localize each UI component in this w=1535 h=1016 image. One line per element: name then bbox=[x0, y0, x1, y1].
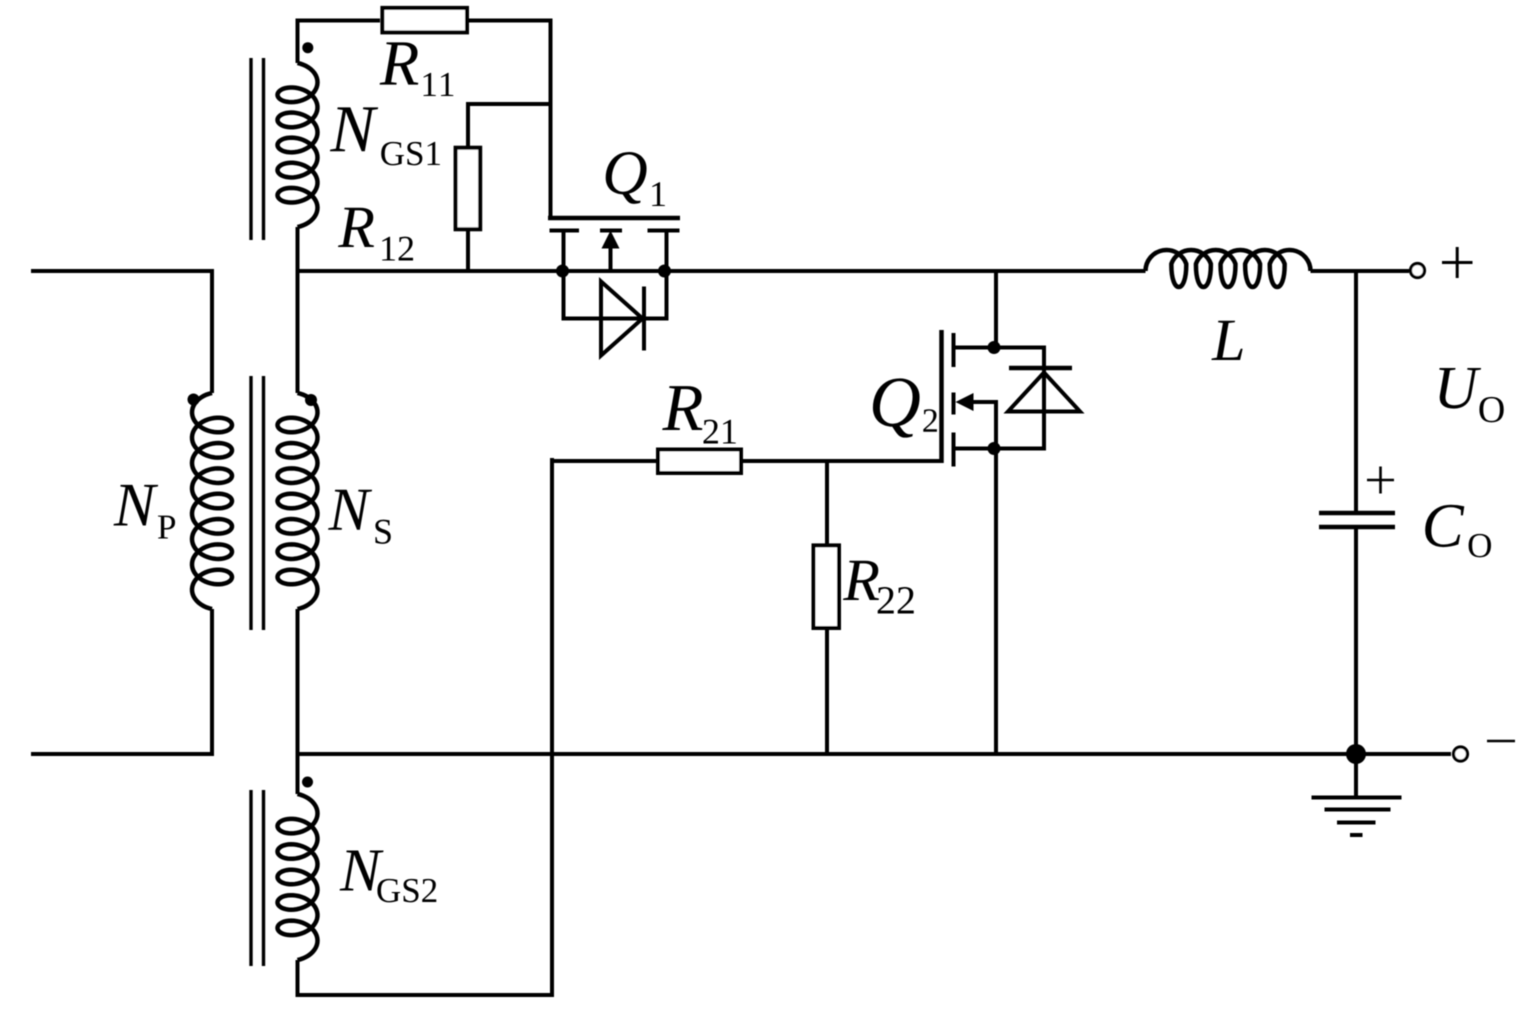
Q2 substrate arrow shaft bbox=[972, 400, 998, 404]
wire NGS2 bottom horizontal bbox=[298, 993, 555, 997]
label NGS2 bbox=[340, 851, 437, 903]
resistor R11 bbox=[382, 8, 467, 33]
winding NP bbox=[192, 393, 232, 609]
core bottom line 1 bbox=[249, 790, 252, 966]
Q2 drain lead bbox=[954, 346, 997, 350]
wire NGS2 top lead bbox=[296, 754, 300, 794]
Q2 mid vertical bbox=[994, 402, 998, 449]
Q2 substrate arrow head bbox=[956, 393, 974, 411]
resistor R22 bbox=[814, 545, 840, 628]
winding NGS1 bbox=[278, 63, 318, 227]
resistor R21 bbox=[658, 450, 741, 474]
Q1 channel dash source bbox=[648, 229, 680, 233]
label CO bbox=[1425, 505, 1491, 558]
label R21 bbox=[662, 386, 736, 443]
junction dot Q1 drain bbox=[556, 265, 569, 278]
Q2 channel dash middle bbox=[952, 393, 956, 415]
wire R22 top lead bbox=[825, 461, 829, 546]
Q1 channel dash middle bbox=[600, 229, 622, 233]
junction dot rail ground bbox=[1346, 744, 1366, 764]
Q1 substrate arrow shaft bbox=[609, 246, 613, 271]
wire NGS2 to R21 vertical bbox=[550, 458, 554, 995]
wire NS top lead bbox=[296, 271, 300, 393]
wire R22 bottom lead bbox=[825, 627, 829, 756]
wire main secondary bbox=[296, 269, 1146, 273]
label Q1 bbox=[606, 152, 665, 206]
wire gate branch vertical Q1 bbox=[549, 21, 553, 219]
Q1 source lead bbox=[665, 231, 669, 272]
polarity dot NGS2 bbox=[302, 777, 313, 788]
wire top to R11 bbox=[296, 19, 381, 23]
Q2 body diode cathode bar bbox=[1009, 366, 1072, 371]
junction dot Q1 source bbox=[658, 265, 671, 278]
plus sign cap v bbox=[1379, 467, 1382, 494]
ground bar 3 bbox=[1337, 821, 1376, 825]
wire R12 bottom lead bbox=[466, 230, 470, 271]
label R12 bbox=[338, 208, 413, 261]
polarity dot NP bbox=[188, 394, 200, 406]
junction dot Q2 drain bbox=[988, 341, 1001, 354]
label UO bbox=[1439, 368, 1503, 422]
junction dot Q2 source bbox=[988, 442, 1001, 455]
winding NGS2 bbox=[278, 794, 318, 960]
wire output rail bottom bbox=[298, 752, 1452, 756]
Q1 substrate arrow head bbox=[602, 231, 620, 249]
core middle line 1 bbox=[249, 376, 252, 630]
wire R21 left lead bbox=[550, 459, 658, 463]
wire R12 top lead bbox=[466, 102, 470, 147]
Q2 source lead bbox=[954, 447, 997, 451]
ground bar 1 bbox=[1312, 796, 1402, 800]
Q1 body diode cathode bar bbox=[642, 287, 646, 351]
core bottom line 2 bbox=[262, 790, 265, 966]
wire NGS1 top lead bbox=[296, 21, 300, 64]
plus sign output h bbox=[1442, 261, 1473, 264]
core top line 1 bbox=[249, 58, 252, 240]
wire NGS1 bottom lead bbox=[296, 227, 300, 271]
core top line 2 bbox=[262, 58, 265, 240]
Q1 drain lead bbox=[562, 231, 566, 272]
Q2 channel dash drain bbox=[952, 333, 956, 367]
Q2 gate plate bbox=[939, 330, 944, 463]
core middle line 2 bbox=[262, 376, 265, 630]
Q2 source vertical bbox=[994, 449, 998, 755]
ground bar 4 bbox=[1350, 833, 1363, 837]
wire primary bottom bbox=[31, 752, 212, 756]
label NS bbox=[328, 490, 391, 544]
Q2 body diode loop wire bbox=[996, 348, 1044, 449]
wire NS bottom lead bbox=[296, 609, 300, 754]
wire primary left vertical top bbox=[210, 269, 214, 393]
label NP bbox=[113, 485, 175, 539]
terminal circle + bbox=[1411, 264, 1425, 278]
terminal circle - bbox=[1454, 747, 1468, 761]
Q1 body diode loop wire bbox=[564, 271, 667, 319]
winding NS bbox=[278, 393, 318, 609]
ground bar 2 bbox=[1325, 808, 1391, 812]
Q2 body diode triangle bbox=[1008, 373, 1080, 412]
capacitor Co bottom plate bbox=[1319, 525, 1395, 530]
wire primary top bbox=[31, 269, 212, 273]
wire Co top lead bbox=[1354, 271, 1358, 511]
Q2 channel dash source bbox=[952, 433, 956, 467]
wire primary left vertical bottom bbox=[210, 609, 214, 756]
wire R12 top horizontal bbox=[468, 102, 552, 106]
label R11 bbox=[380, 42, 454, 96]
inductor L bbox=[1146, 250, 1311, 287]
polarity dot NS bbox=[305, 394, 317, 406]
ground stub bbox=[1354, 754, 1358, 796]
capacitor Co top plate bbox=[1319, 511, 1395, 516]
wire NGS2 bottom lead bbox=[296, 960, 300, 997]
Q1 gate plate bbox=[548, 216, 680, 221]
wire inductor to terminal bbox=[1311, 269, 1410, 273]
wire Co bottom lead bbox=[1354, 529, 1358, 754]
label L bbox=[1211, 321, 1242, 360]
plus sign output v bbox=[1456, 247, 1459, 278]
label NGS1 bbox=[330, 107, 440, 165]
plus sign cap h bbox=[1367, 479, 1394, 482]
label Q2 bbox=[873, 378, 937, 437]
resistor R12 bbox=[456, 148, 481, 230]
wire R11 to gate branch bbox=[468, 19, 553, 23]
wire R21 to Q2 gate bbox=[741, 459, 942, 463]
Q1 body diode triangle bbox=[601, 282, 643, 356]
minus sign output bbox=[1487, 740, 1515, 743]
label R22 bbox=[843, 561, 914, 614]
polarity dot NGS1 bbox=[302, 42, 313, 53]
Q2 drain vertical bbox=[994, 269, 998, 348]
Q1 channel dash drain bbox=[550, 229, 580, 233]
